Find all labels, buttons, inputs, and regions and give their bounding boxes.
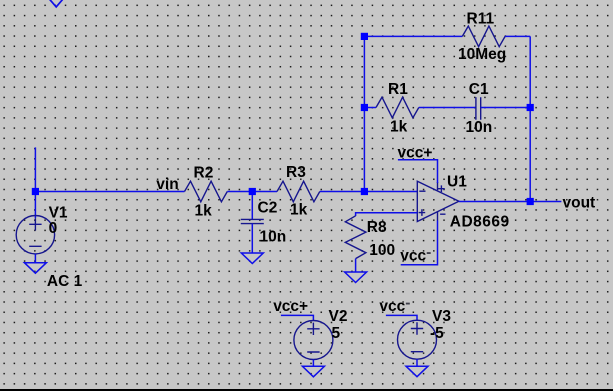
svg-text:V3: V3	[432, 308, 451, 325]
resistor R3	[277, 181, 320, 202]
wire feedback node up to R1 row and R11 row	[363, 36, 365, 191]
capacitor C2	[241, 219, 264, 223]
wire node to R11	[364, 35, 462, 37]
wire C1 to right vertical	[481, 107, 531, 109]
svg-text:vcc+: vcc+	[273, 298, 308, 315]
svg-text:100: 100	[369, 242, 395, 259]
svg-text:R11: R11	[467, 11, 495, 28]
wire C2 node to R3	[252, 191, 277, 193]
svg-text:10n: 10n	[260, 229, 287, 246]
svg-text:AC 1: AC 1	[47, 273, 83, 290]
svg-text:AD8669: AD8669	[450, 214, 510, 231]
resistor R1	[376, 97, 419, 118]
junction node (364.4,36.4)	[361, 33, 368, 40]
wire vcc- label stub to V3	[386, 315, 417, 321]
capacitor C1	[476, 97, 481, 119]
wire V1 to ground	[34, 254, 36, 263]
svg-text:-5: -5	[430, 325, 444, 342]
junction node (364.4,191.5)	[361, 188, 368, 195]
wire opamp noninverting input to R8	[356, 213, 418, 216]
svg-text:R2: R2	[194, 164, 214, 181]
resistor R11	[462, 26, 505, 47]
ground (V1)	[24, 263, 46, 274]
op-amp U1 (AD8669)	[417, 181, 459, 221]
wire opamp output to vout	[459, 201, 562, 203]
wire V1 to R2 (vin net)	[35, 191, 184, 193]
voltage source V1	[16, 216, 54, 254]
wire C2 to ground	[251, 224, 253, 253]
svg-text:5: 5	[332, 325, 341, 342]
wire R3 to feedback node	[320, 191, 365, 193]
resistor R8	[345, 216, 366, 259]
svg-text:C1: C1	[469, 81, 489, 98]
svg-text:V2: V2	[329, 308, 348, 325]
svg-text:1k: 1k	[195, 202, 213, 219]
resistor R2	[185, 181, 228, 202]
svg-text:1k: 1k	[290, 202, 308, 219]
wire feedback node to opamp inverting input	[364, 191, 417, 193]
ground (R8)	[345, 272, 367, 283]
wire vcc+ rail to opamp V+ pin	[398, 160, 438, 183]
node flag tip (cut off at top)	[49, 0, 63, 7]
junction node (530.2,201.5)	[527, 198, 534, 205]
junction node (364.4,107.5)	[361, 104, 368, 111]
svg-text:vcc+: vcc+	[398, 144, 433, 161]
wire right vertical (output to feedback)	[529, 36, 531, 201]
junction node (530.2,107.5)	[527, 104, 534, 111]
svg-text:R1: R1	[388, 81, 408, 98]
svg-text:1k: 1k	[390, 119, 408, 136]
wire node to R1	[364, 107, 376, 109]
wire vcc+ label stub to V2	[281, 315, 314, 321]
svg-text:0: 0	[49, 220, 58, 237]
wire C2 node down to C2	[251, 192, 253, 220]
svg-text:R8: R8	[367, 219, 387, 236]
svg-text:vin: vin	[156, 176, 178, 193]
svg-text:10n: 10n	[466, 119, 493, 136]
wire R2 to C2 node	[227, 191, 252, 193]
svg-text:V1: V1	[49, 205, 68, 222]
ground (V3)	[406, 366, 428, 377]
svg-text:10Meg: 10Meg	[458, 46, 506, 63]
svg-text:U1: U1	[447, 174, 467, 191]
svg-text:R3: R3	[286, 164, 306, 181]
wire V2 to ground	[312, 360, 314, 367]
junction node (35.4,191.5)	[32, 188, 39, 195]
svg-text:vout: vout	[563, 194, 596, 211]
voltage source V3	[398, 320, 437, 359]
voltage source V2	[294, 321, 333, 360]
wire R1 to C1	[419, 107, 476, 109]
ground (V2)	[302, 366, 324, 377]
wire vin stub above V1	[34, 147, 36, 191]
wire R8 to ground	[355, 259, 357, 272]
wire vcc- rail to opamp V- pin	[401, 221, 438, 265]
wire R11 to right vertical	[505, 35, 530, 37]
status bar	[0, 389, 613, 391]
wire junction to V1 top	[34, 192, 36, 219]
wire V3 to ground	[416, 359, 418, 366]
ground (C2)	[241, 253, 263, 264]
svg-text:C2: C2	[258, 200, 278, 217]
junction node (252.3,191.5)	[249, 188, 256, 195]
